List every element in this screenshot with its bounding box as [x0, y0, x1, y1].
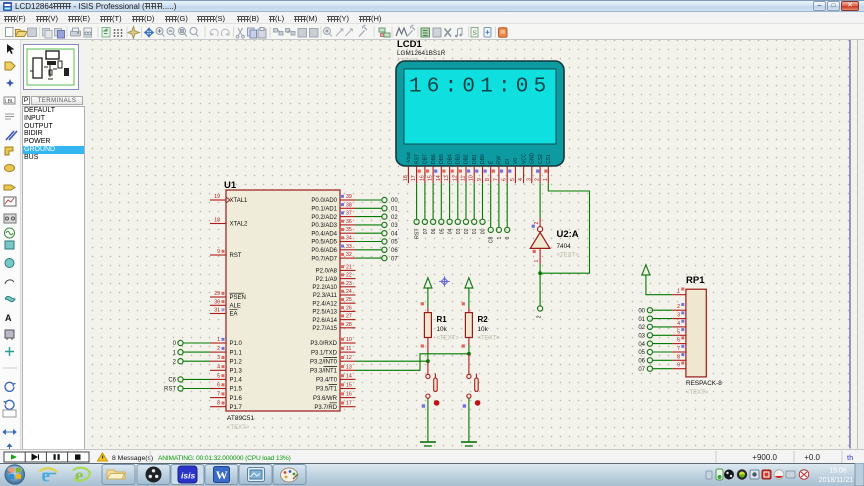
U1 left pin state squares [222, 250, 225, 405]
svg-text:7: 7 [217, 392, 220, 398]
svg-text:P2.7/A15: P2.7/A15 [312, 326, 337, 332]
svg-text:DB4: DB4 [447, 154, 453, 164]
svg-text:7: 7 [493, 178, 499, 181]
svg-text:LBL: LBL [5, 99, 14, 105]
LCD1 labels [397, 39, 446, 65]
U1 left pin names [230, 198, 249, 411]
U2 pin1 stub and junction [538, 248, 542, 275]
svg-text:9: 9 [677, 363, 680, 369]
svg-text:17: 17 [411, 175, 417, 181]
resistor pack RP1 [686, 275, 722, 396]
svg-text:9: 9 [217, 249, 220, 255]
svg-text:28: 28 [346, 322, 352, 328]
svg-text:ANIMATING: 00:01:32.000000 (CP: ANIMATING: 00:01:32.000000 (CPU load 13%… [158, 455, 291, 462]
RP1 node labels 00..07 [638, 308, 645, 373]
terminals right of U1 [382, 197, 387, 260]
ground S1 [420, 442, 436, 446]
svg-text:05: 05 [391, 240, 398, 246]
svg-text:04: 04 [448, 228, 454, 234]
svg-text:P1.6: P1.6 [230, 396, 243, 402]
svg-text:5: 5 [510, 178, 516, 181]
svg-text:P0.5/AD5: P0.5/AD5 [311, 240, 337, 246]
svg-text:GND: GND [530, 153, 536, 165]
svg-text:02: 02 [638, 325, 645, 331]
svg-text:P2.4/A12: P2.4/A12 [312, 301, 337, 307]
LCD pin numbers [403, 175, 549, 181]
svg-text:17: 17 [346, 401, 352, 407]
status row [0, 449, 864, 463]
left panel [21, 40, 89, 449]
svg-text:11: 11 [461, 176, 467, 181]
button S1 [426, 361, 437, 398]
svg-text:10k: 10k [478, 326, 489, 333]
svg-text:31: 31 [214, 308, 220, 314]
svg-text:14: 14 [346, 373, 352, 379]
LCD pin stubs [408, 166, 548, 183]
svg-text:XTAL2: XTAL2 [230, 222, 249, 228]
svg-text:P0.0/AD0: P0.0/AD0 [311, 198, 337, 204]
svg-text:AT89C51: AT89C51 [227, 415, 254, 422]
svg-text:DB2: DB2 [464, 154, 470, 164]
title bar [0, 0, 864, 12]
button S2 [467, 354, 478, 398]
svg-text:DB6: DB6 [431, 154, 437, 164]
svg-text:5: 5 [677, 329, 680, 335]
svg-text:P0.4/AD4: P0.4/AD4 [311, 231, 337, 237]
terminals RP1 [647, 308, 652, 372]
wire power to RP1 pin1 [646, 275, 672, 295]
svg-text:1: 1 [217, 337, 220, 343]
svg-text:C6: C6 [168, 378, 176, 384]
svg-text:1: 1 [497, 236, 503, 239]
button S2 state dot [463, 400, 481, 408]
svg-text:04: 04 [391, 231, 398, 237]
svg-text:10: 10 [469, 175, 475, 181]
svg-text:22: 22 [346, 273, 352, 279]
svg-text:DB7: DB7 [423, 154, 429, 164]
svg-text:4: 4 [518, 178, 524, 181]
svg-text:+0.0: +0.0 [804, 453, 820, 462]
svg-text:3: 3 [217, 355, 220, 361]
svg-text:03: 03 [456, 228, 462, 234]
svg-text:00: 00 [481, 228, 487, 234]
svg-text:30: 30 [214, 299, 220, 305]
svg-text:P3.0/RXD: P3.0/RXD [310, 341, 337, 347]
svg-text:6: 6 [217, 383, 220, 389]
power arrow RP1 [642, 265, 650, 275]
svg-text:5: 5 [217, 373, 220, 379]
wire P3.2 to R1 node [356, 360, 428, 362]
svg-text:<TEXT>: <TEXT> [227, 425, 250, 431]
wire S2 to ground [468, 398, 470, 442]
svg-text:1: 1 [543, 178, 549, 181]
svg-text:P3.6/WR: P3.6/WR [313, 396, 338, 402]
svg-text:V0: V0 [513, 158, 519, 164]
svg-text:P3.5/T1: P3.5/T1 [316, 387, 338, 393]
sheet edge [849, 40, 851, 449]
svg-text:RST: RST [164, 387, 176, 393]
U1 body AT89C51 [224, 180, 340, 431]
svg-text:16: 16 [346, 392, 352, 398]
svg-text:16: 16 [419, 175, 425, 181]
svg-text:01: 01 [638, 317, 645, 323]
svg-text:00: 00 [638, 308, 645, 314]
node labels 00..07 [391, 198, 398, 262]
svg-text:2: 2 [534, 222, 540, 225]
svg-text:2: 2 [173, 359, 177, 365]
svg-text:1: 1 [534, 260, 540, 263]
svg-text:P1.3: P1.3 [230, 369, 243, 375]
svg-text:18: 18 [214, 218, 220, 224]
svg-text:27: 27 [346, 314, 352, 320]
svg-text:32: 32 [346, 252, 352, 258]
svg-text:P1.5: P1.5 [230, 387, 243, 393]
U1 right pin numbers [346, 194, 352, 407]
wires RP1 to terminals [653, 310, 673, 369]
svg-text:02: 02 [464, 228, 470, 234]
svg-text:P3.7/RD: P3.7/RD [314, 405, 337, 411]
wire LCD data bus drops [417, 183, 483, 219]
svg-text:34: 34 [346, 236, 352, 242]
svg-text:00: 00 [391, 198, 398, 204]
svg-text:03: 03 [638, 334, 645, 340]
wires P1.0-P1.2 P1.4 P1.5 to terminals [183, 343, 210, 389]
svg-text:11: 11 [346, 346, 351, 352]
ground S2 [461, 442, 477, 446]
svg-text:DI: DI [505, 159, 511, 164]
svg-text:39: 39 [346, 194, 352, 200]
svg-text:P0.6/AD6: P0.6/AD6 [311, 248, 337, 254]
svg-text:P2.5/A13: P2.5/A13 [312, 310, 337, 316]
svg-text:P2.1/A9: P2.1/A9 [316, 277, 338, 283]
svg-text:RP1: RP1 [686, 275, 705, 286]
svg-text:13: 13 [444, 175, 450, 181]
wire LCD E RW DI drops [491, 183, 508, 227]
taskbar [0, 463, 864, 486]
svg-text:7: 7 [677, 346, 680, 352]
power arrow above R1 [424, 278, 432, 308]
svg-text:PSEN: PSEN [230, 295, 246, 301]
svg-text:ALE: ALE [230, 304, 241, 310]
svg-text:A: A [5, 313, 12, 323]
svg-text:9: 9 [477, 178, 483, 181]
svg-text:02: 02 [391, 215, 398, 221]
svg-text:2: 2 [535, 178, 541, 181]
svg-text:8: 8 [217, 401, 220, 407]
svg-text:0: 0 [173, 341, 177, 347]
svg-text:10: 10 [346, 337, 352, 343]
svg-text:05: 05 [638, 350, 645, 356]
RP1 pin numbers [677, 289, 680, 369]
svg-text:1: 1 [677, 289, 680, 295]
svg-text:12: 12 [452, 175, 458, 181]
svg-text:RST: RST [415, 228, 421, 239]
svg-text:07: 07 [638, 367, 645, 373]
LCD pin names [406, 152, 552, 164]
svg-text:<TEXT>: <TEXT> [557, 253, 580, 259]
svg-text:P0.2/AD2: P0.2/AD2 [311, 215, 337, 221]
svg-text:38: 38 [346, 202, 352, 208]
svg-text:36: 36 [346, 219, 352, 225]
svg-text:4: 4 [217, 364, 220, 370]
RP1 pin state squares [681, 288, 684, 365]
toolbar [0, 24, 864, 40]
svg-text:LGM12641BS1R: LGM12641BS1R [397, 50, 446, 57]
wire to terminal 2 [537, 273, 543, 318]
svg-text:0: 0 [505, 236, 511, 239]
power arrow above R2 [465, 278, 473, 308]
svg-text:2: 2 [537, 315, 543, 318]
svg-text:VCC: VCC [521, 153, 527, 164]
svg-text:2018/11/21: 2018/11/21 [819, 477, 854, 484]
svg-text:P2.6/A14: P2.6/A14 [312, 318, 337, 324]
svg-text:29: 29 [214, 291, 220, 297]
svg-text:15: 15 [428, 175, 434, 181]
LCD LCD1 body [396, 61, 564, 166]
terminals left of U1 [178, 340, 183, 391]
U1 left pin numbers [214, 194, 220, 407]
RP1 pin stubs [672, 295, 686, 369]
svg-text:P2.3/A11: P2.3/A11 [313, 293, 338, 299]
svg-text:2: 2 [217, 346, 220, 352]
terminals under LCD data wires [414, 219, 485, 224]
wire S1 to ground [427, 398, 429, 442]
svg-text:15:06: 15:06 [829, 468, 847, 475]
svg-text:03: 03 [391, 223, 398, 229]
svg-text:DB5: DB5 [439, 154, 445, 164]
svg-text:CS1: CS1 [546, 154, 552, 164]
svg-text:33: 33 [346, 244, 352, 250]
wire CS1 loop to U2 output node [542, 183, 590, 273]
svg-text:XTAL1: XTAL1 [230, 198, 249, 204]
svg-text:RST: RST [414, 154, 420, 164]
node B junction R2 [467, 345, 471, 356]
svg-text:S: S [473, 30, 478, 37]
svg-text:35: 35 [346, 227, 352, 233]
wire CS2 to U2 input [539, 183, 541, 218]
wire P3.3 to R2 node [356, 354, 469, 371]
svg-text:6: 6 [677, 338, 680, 344]
resistor R2 [462, 302, 501, 347]
svg-text:CS2: CS2 [538, 154, 544, 164]
svg-text:06: 06 [431, 228, 437, 234]
svg-text:3: 3 [677, 313, 680, 319]
svg-text:EA: EA [230, 312, 238, 318]
svg-text:P3.1/TXD: P3.1/TXD [311, 350, 338, 356]
LCD pin state squares [418, 170, 548, 173]
svg-text:8: 8 [485, 178, 491, 181]
terminals E RW DI [488, 227, 510, 232]
svg-text:14: 14 [436, 175, 442, 181]
svg-text:R1: R1 [437, 315, 448, 324]
svg-text:P0.7/AD7: P0.7/AD7 [311, 256, 337, 262]
svg-text:th: th [847, 453, 853, 462]
svg-text:P2.0/A8: P2.0/A8 [316, 269, 338, 275]
svg-text:RW: RW [497, 155, 503, 164]
svg-text:04: 04 [638, 342, 645, 348]
svg-text:P3.4/T0: P3.4/T0 [316, 378, 338, 384]
svg-text:P3.2/INT0: P3.2/INT0 [310, 359, 338, 365]
svg-text:13: 13 [346, 364, 352, 370]
svg-text:15: 15 [346, 383, 352, 389]
menu bar [0, 12, 864, 24]
svg-text:P1.7: P1.7 [230, 405, 243, 411]
svg-text:26: 26 [346, 305, 352, 311]
svg-text:25: 25 [346, 297, 352, 303]
svg-text:12: 12 [346, 355, 352, 361]
svg-text:16:01:05: 16:01:05 [409, 76, 551, 99]
svg-text:8 Message(s): 8 Message(s) [112, 455, 153, 462]
svg-text:P0.1/AD1: P0.1/AD1 [311, 207, 337, 213]
svg-text:06: 06 [391, 248, 398, 254]
svg-text:P1.0: P1.0 [230, 341, 243, 347]
svg-text:U2:A: U2:A [557, 229, 579, 240]
svg-text:24: 24 [346, 289, 352, 295]
svg-text:01: 01 [472, 228, 478, 234]
svg-text:21: 21 [346, 264, 352, 270]
svg-text:P2.2/A10: P2.2/A10 [312, 285, 337, 291]
U1 right pin names [310, 198, 338, 411]
svg-text:8: 8 [677, 354, 680, 360]
svg-text:DB3: DB3 [456, 154, 462, 164]
svg-text:07: 07 [391, 256, 398, 262]
svg-text:P3.3/INT1: P3.3/INT1 [310, 369, 338, 375]
svg-text:-Vout: -Vout [406, 152, 412, 164]
origin marker [439, 276, 450, 287]
svg-text:U1: U1 [224, 180, 237, 191]
svg-text:4: 4 [677, 321, 680, 327]
svg-text:isis: isis [181, 471, 195, 481]
wires P0 to terminals [356, 200, 382, 258]
svg-text:RST: RST [230, 253, 242, 259]
U1 left pin stubs [210, 200, 226, 407]
U2:A labels [557, 229, 580, 259]
svg-text:<TEXT>: <TEXT> [437, 336, 460, 342]
svg-text:R2: R2 [478, 315, 489, 324]
svg-text:P0.3/AD3: P0.3/AD3 [311, 223, 337, 229]
svg-text:6: 6 [502, 178, 508, 181]
svg-text:37: 37 [346, 211, 352, 217]
svg-text:LCD1: LCD1 [397, 40, 423, 50]
canvas [89, 40, 857, 449]
button S1 state dot [422, 400, 440, 408]
resistor R1 [421, 302, 460, 352]
svg-text:DB1: DB1 [472, 154, 478, 164]
terminal labels RST 07..00 [415, 228, 487, 239]
U1 right pin stubs [340, 200, 356, 407]
svg-text:DB0: DB0 [480, 154, 486, 164]
node labels 0 1 2 C6 RST [164, 341, 177, 393]
svg-text:C8: C8 [489, 236, 495, 243]
svg-text:W: W [216, 468, 228, 482]
U1 right pin state squares [341, 195, 344, 405]
svg-text:23: 23 [346, 281, 352, 287]
svg-text:18: 18 [403, 175, 409, 181]
svg-text:P1.4: P1.4 [230, 378, 243, 384]
terminal labels C8 1 0 [489, 236, 512, 243]
svg-text:07: 07 [423, 228, 429, 234]
svg-text:RESPACK-8: RESPACK-8 [686, 380, 722, 387]
svg-text:P1.1: P1.1 [230, 350, 243, 356]
op-amp U2:A inverter [530, 218, 550, 263]
svg-text:3: 3 [526, 178, 532, 181]
svg-text:7404: 7404 [557, 243, 572, 250]
svg-text:19: 19 [214, 194, 220, 200]
svg-text:1: 1 [173, 350, 177, 356]
node A junction R1 [426, 353, 430, 364]
svg-text:10k: 10k [437, 326, 448, 333]
svg-text:<TEXT>: <TEXT> [686, 390, 709, 396]
svg-text:+900.0: +900.0 [752, 453, 777, 462]
svg-text:P1.2: P1.2 [230, 359, 243, 365]
svg-text:05: 05 [439, 228, 445, 234]
svg-text:2: 2 [677, 304, 680, 310]
svg-text:06: 06 [638, 359, 645, 365]
left tool column [0, 40, 21, 449]
svg-text:<TEXT>: <TEXT> [478, 336, 501, 342]
svg-text:01: 01 [391, 207, 398, 213]
